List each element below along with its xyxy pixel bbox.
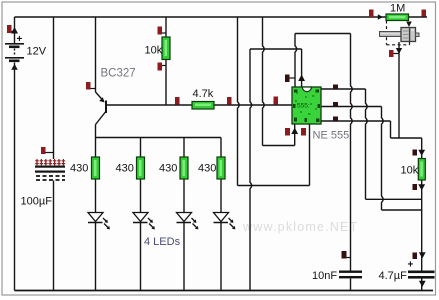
wire V x237 bbox=[238, 17, 240, 186]
resistor 10k (left) bbox=[145, 37, 171, 60]
svg-text:430: 430 bbox=[159, 163, 177, 175]
svg-text:555:: 555: bbox=[297, 103, 310, 110]
node pad 100uF bbox=[41, 147, 54, 154]
current arrow below 4.7uF bbox=[419, 281, 426, 287]
wire 555 right pin3 bbox=[321, 120, 391, 122]
wire LED column 3 bbox=[183, 138, 185, 158]
svg-text:4 LEDs: 4 LEDs bbox=[144, 236, 181, 248]
wire 10nF column bbox=[351, 34, 353, 271]
wire 555 top-right pin bbox=[301, 49, 303, 87]
wire 100uF column bbox=[53, 17, 55, 159]
svg-text:+: + bbox=[408, 260, 414, 271]
wire emitter column bbox=[95, 17, 97, 92]
svg-text:4.7k: 4.7k bbox=[193, 88, 214, 100]
svg-text:10k: 10k bbox=[145, 45, 163, 57]
svg-text:430: 430 bbox=[70, 163, 88, 175]
node pad 555 right pin3 bbox=[333, 117, 338, 122]
LED D4 bbox=[214, 213, 234, 228]
wire LED column 1 bbox=[95, 138, 97, 158]
capacitor C1 100uF bbox=[21, 159, 66, 208]
wire LED column 4 bbox=[220, 138, 222, 158]
current arrow rail before 1M bbox=[378, 14, 383, 20]
svg-text:4.7µF: 4.7µF bbox=[379, 270, 408, 282]
trimmer linkage dashes bbox=[387, 21, 410, 45]
svg-text:430: 430 bbox=[116, 163, 134, 175]
node pad 555 right pin1 bbox=[333, 85, 338, 90]
LED D2 bbox=[133, 213, 153, 228]
wire 555 bottom-right pin bbox=[309, 124, 311, 186]
wire pot output bbox=[398, 42, 400, 138]
capacitor 10nF bbox=[312, 270, 362, 282]
LED D1 bbox=[88, 213, 108, 228]
wire 555 right pin2 bbox=[321, 106, 382, 108]
svg-text:12V: 12V bbox=[27, 46, 47, 58]
current arrow below 10k right bbox=[418, 184, 425, 190]
current arrow 555 bottom pin bbox=[291, 128, 298, 135]
current arrow above 4.7uF bbox=[419, 252, 426, 258]
wire LED rail bbox=[96, 137, 222, 139]
wire 555 right pin1 bbox=[321, 88, 366, 90]
wire LED column 2 bbox=[140, 138, 142, 158]
node pad battery bbox=[7, 25, 15, 33]
wire bottom rail bbox=[15, 290, 434, 292]
IC U1 NE555 bbox=[292, 87, 349, 142]
resistor R4 430 bbox=[198, 157, 225, 179]
trimmer (potentiometer) bbox=[380, 28, 420, 42]
current arrow battery top bbox=[11, 27, 18, 34]
current arrow above 10k right bbox=[418, 150, 425, 156]
current arrow 555 top pin bbox=[298, 75, 305, 82]
wire H y145 bbox=[263, 145, 295, 147]
wire base net bbox=[107, 104, 293, 106]
resistor R3 430 bbox=[159, 157, 188, 179]
wire 555 top-left pin bbox=[295, 34, 297, 88]
wire V x250 bbox=[250, 49, 252, 291]
wire H y138 bbox=[391, 137, 422, 139]
wire H y199 bbox=[366, 198, 422, 200]
wire H y32 bbox=[295, 33, 351, 35]
svg-text:www.pklome.NET: www.pklome.NET bbox=[242, 220, 358, 234]
svg-text:BC327: BC327 bbox=[101, 68, 136, 80]
node pad 4.7uF bbox=[413, 253, 418, 260]
svg-text:10k: 10k bbox=[401, 165, 419, 177]
node pad emitter bbox=[86, 82, 96, 90]
node pad 10nF bbox=[342, 251, 351, 259]
current arrow pot output bbox=[396, 48, 402, 54]
resistor R1 430 bbox=[70, 157, 100, 179]
wire 10k-right / 4.7uF column bbox=[421, 138, 423, 159]
svg-text:430: 430 bbox=[198, 163, 216, 175]
current arrow battery bottom bbox=[11, 64, 18, 70]
wire H y49 bbox=[250, 48, 302, 50]
wire V x381.5 bbox=[382, 107, 384, 211]
wire V x365 bbox=[366, 89, 368, 199]
wire H y185 bbox=[238, 185, 310, 187]
node pad base-left bbox=[175, 97, 180, 105]
wire 555 bottom-left pin bbox=[294, 124, 296, 146]
node pad 1M left bbox=[369, 10, 374, 18]
wire V x390 pin3 drop bbox=[390, 121, 392, 138]
wire top rail bbox=[15, 16, 428, 18]
LED D3 bbox=[177, 213, 197, 228]
node pad base-mid bbox=[227, 97, 232, 105]
svg-text:10nF: 10nF bbox=[312, 270, 337, 282]
resistor 4.7k bbox=[192, 88, 214, 109]
resistor 10k (right) bbox=[401, 159, 426, 181]
node pad 1M right bbox=[422, 10, 427, 17]
node pad 555 right pin2 bbox=[333, 102, 338, 107]
wire collector segment bbox=[95, 125, 97, 138]
wire battery column bbox=[14, 17, 16, 43]
resistor 1M (variable) bbox=[386, 3, 409, 21]
svg-text:NE 555: NE 555 bbox=[313, 130, 350, 142]
capacitor 4.7uF bbox=[379, 260, 435, 283]
node pad 10k-right bottom bbox=[413, 184, 418, 190]
battery B1 12V bbox=[5, 34, 47, 62]
svg-text:100µF: 100µF bbox=[21, 196, 53, 208]
svg-text:+: + bbox=[17, 34, 23, 45]
node pad 10k bottom bbox=[158, 63, 167, 71]
node pad 555 left-top bbox=[285, 75, 295, 83]
node pad pot bbox=[389, 50, 399, 57]
current arrow linkage bbox=[406, 22, 412, 28]
node pad 10k top bbox=[158, 27, 167, 35]
svg-text:1M: 1M bbox=[390, 3, 405, 15]
node pad 555 bottom-left bbox=[285, 128, 290, 136]
wire 10k-left column bbox=[165, 17, 167, 37]
wire H y210 bbox=[382, 209, 422, 211]
transistor Q1 BC327 bbox=[96, 68, 136, 125]
node pad 10k-right top bbox=[413, 150, 418, 156]
resistor R2 430 bbox=[116, 157, 145, 179]
node pad base-555 bbox=[274, 97, 279, 105]
wire V x262.5 bbox=[263, 17, 265, 146]
node pad 555 bottom-right bbox=[301, 128, 306, 136]
